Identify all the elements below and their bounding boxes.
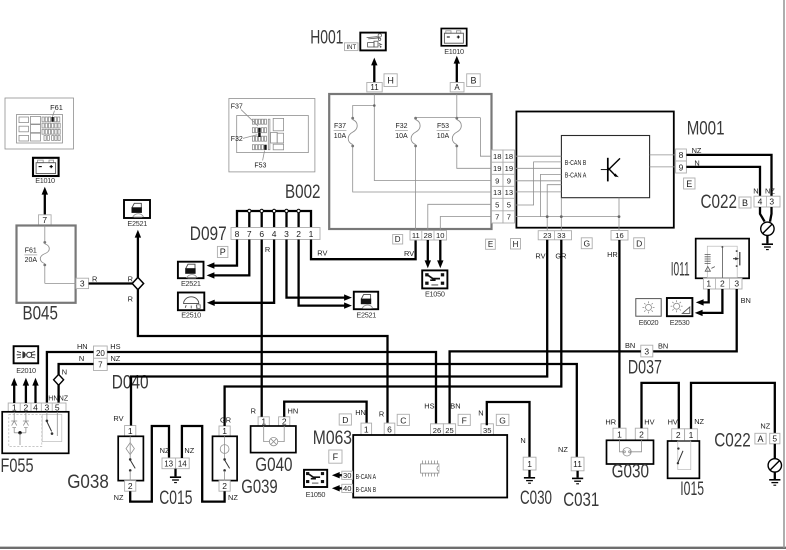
svg-text:2: 2 bbox=[222, 481, 227, 491]
svg-text:1: 1 bbox=[527, 459, 532, 469]
body computer M001 bbox=[515, 112, 676, 231]
svg-text:35: 35 bbox=[483, 426, 491, 435]
svg-text:B-CAN B: B-CAN B bbox=[356, 487, 377, 494]
CAN icon E1050 bbox=[304, 470, 327, 499]
svg-text:HS: HS bbox=[424, 402, 434, 411]
wire arrow M063.30 to E1050 bbox=[332, 472, 342, 478]
F055 pin strip pins 1 2 4 3 5 bbox=[8, 403, 66, 413]
svg-text:NZ: NZ bbox=[558, 445, 568, 454]
svg-text:20: 20 bbox=[96, 349, 105, 358]
svg-text:I015: I015 bbox=[680, 479, 704, 500]
letter box G bbox=[581, 238, 592, 249]
C031 pin 11 bbox=[571, 457, 584, 471]
pump G038 bbox=[118, 436, 143, 480]
svg-text:2: 2 bbox=[720, 279, 725, 289]
svg-text:4: 4 bbox=[272, 229, 277, 239]
svg-text:E: E bbox=[686, 179, 692, 189]
svg-text:HN: HN bbox=[288, 406, 299, 415]
wire arrow D097.8 to E2521 bbox=[207, 240, 237, 269]
svg-text:F53: F53 bbox=[254, 163, 266, 170]
letter box H bbox=[511, 239, 521, 250]
svg-text:4: 4 bbox=[758, 197, 763, 207]
svg-text:10A: 10A bbox=[395, 133, 408, 140]
wire GR M001.33 to G039.1 bbox=[225, 240, 562, 426]
pump motor G030 bbox=[607, 440, 654, 464]
svg-text:P: P bbox=[220, 247, 226, 257]
G040 pin 1 bbox=[258, 416, 269, 426]
letter box A bbox=[755, 433, 766, 444]
svg-text:1: 1 bbox=[222, 426, 227, 436]
svg-text:F61: F61 bbox=[50, 103, 63, 112]
letter box D bbox=[393, 235, 403, 245]
svg-text:16: 16 bbox=[615, 231, 623, 240]
connector C015 pins 13 14 bbox=[162, 458, 189, 469]
svg-text:R: R bbox=[379, 409, 384, 418]
I015 pin 1 bbox=[685, 429, 698, 441]
wire arrow B002.A to E1010 bbox=[454, 56, 460, 83]
svg-text:2: 2 bbox=[676, 430, 681, 440]
svg-text:I011: I011 bbox=[671, 259, 690, 280]
svg-text:NZ: NZ bbox=[114, 493, 124, 502]
wire HS bus D040.20 to M063.26 bbox=[107, 352, 436, 425]
ground C031 bbox=[572, 471, 583, 484]
svg-text:G038: G038 bbox=[67, 472, 109, 493]
wire HR M001.16 to G030.1 bbox=[618, 240, 620, 428]
fusebox inset F37 F32 F53 bbox=[229, 99, 315, 172]
svg-text:5: 5 bbox=[507, 200, 511, 209]
svg-text:E2521: E2521 bbox=[181, 279, 201, 288]
B045 pin 3 bbox=[76, 278, 89, 288]
lamp icon E2510 bbox=[178, 293, 204, 320]
svg-text:E1050: E1050 bbox=[425, 290, 445, 299]
svg-text:C031: C031 bbox=[563, 490, 599, 511]
wire arrow B002.11 to H001 bbox=[371, 58, 377, 83]
svg-text:1: 1 bbox=[128, 426, 133, 436]
svg-text:E2521: E2521 bbox=[127, 219, 147, 228]
letter box C bbox=[397, 414, 409, 425]
svg-text:HN: HN bbox=[355, 408, 366, 417]
wire NZ I015.1 to C022A.5 bbox=[691, 383, 775, 433]
svg-text:1: 1 bbox=[689, 430, 694, 440]
I011 pins 1 2 3 bbox=[703, 278, 742, 289]
svg-text:C022: C022 bbox=[714, 431, 751, 452]
svg-text:E2510: E2510 bbox=[181, 310, 201, 319]
svg-text:RV: RV bbox=[113, 414, 123, 423]
svg-text:NZ: NZ bbox=[110, 354, 120, 363]
door unit I011 bbox=[696, 239, 749, 279]
svg-text:F: F bbox=[333, 452, 339, 462]
wire RV M001.23 to G038.1 bbox=[131, 240, 547, 426]
G038 pin 1 bbox=[125, 426, 136, 437]
ground C022B bbox=[762, 236, 773, 250]
wire BN I011.3 to D037.3 bbox=[653, 289, 737, 351]
svg-text:3: 3 bbox=[80, 278, 85, 288]
svg-text:INT: INT bbox=[346, 45, 356, 51]
svg-text:25: 25 bbox=[445, 426, 453, 435]
svg-text:HS: HS bbox=[110, 342, 120, 351]
svg-text:G040: G040 bbox=[255, 455, 292, 476]
C022A pin 5 bbox=[770, 433, 780, 444]
wire N D040.7 to node bbox=[59, 364, 94, 375]
M063 pin 35 bbox=[481, 424, 493, 435]
node diamond R bbox=[132, 277, 143, 289]
svg-text:2: 2 bbox=[296, 229, 301, 239]
svg-text:1: 1 bbox=[706, 279, 711, 289]
svg-text:G: G bbox=[499, 415, 506, 425]
svg-text:E1050: E1050 bbox=[306, 490, 326, 499]
svg-text:R: R bbox=[265, 245, 270, 254]
svg-text:1: 1 bbox=[617, 429, 622, 439]
svg-text:9: 9 bbox=[507, 176, 511, 185]
svg-text:H: H bbox=[387, 76, 394, 86]
svg-text:BN: BN bbox=[658, 342, 668, 351]
fusebox location inset F61 bbox=[5, 98, 74, 149]
ground C030 bbox=[524, 470, 535, 483]
svg-text:BN: BN bbox=[625, 341, 635, 350]
svg-text:NZ: NZ bbox=[765, 187, 775, 196]
B045 pin 7 bbox=[39, 215, 52, 225]
svg-text:E1010: E1010 bbox=[444, 47, 464, 56]
svg-text:D: D bbox=[342, 415, 348, 425]
battery E1010 bbox=[441, 29, 466, 56]
switch unit F055 bbox=[2, 412, 69, 454]
wire arrow I011.2 to E2530 bbox=[695, 289, 723, 316]
M001 bottom pins 23 33 bbox=[538, 231, 571, 241]
svg-text:F37: F37 bbox=[334, 123, 346, 130]
svg-text:7: 7 bbox=[507, 213, 511, 222]
connector D040 bbox=[94, 346, 108, 371]
svg-text:6: 6 bbox=[259, 229, 264, 239]
svg-text:7: 7 bbox=[98, 361, 103, 370]
svg-text:A: A bbox=[454, 83, 460, 92]
switch I015 bbox=[668, 441, 700, 478]
wire arrows F055 pins up bbox=[11, 378, 39, 403]
lamp icon E2521 bbox=[124, 200, 150, 228]
svg-text:D: D bbox=[636, 238, 642, 248]
svg-text:E2530: E2530 bbox=[670, 318, 690, 327]
B002 pin 11 top bbox=[367, 83, 382, 93]
wire arrow D097.2 to E2521 bbox=[299, 240, 352, 309]
wire R D097.6 to G040.1 bbox=[261, 240, 263, 417]
svg-text:G030: G030 bbox=[612, 462, 649, 483]
svg-text:26: 26 bbox=[433, 426, 441, 435]
ground C022A bbox=[769, 472, 780, 485]
battery E1010 bbox=[33, 158, 59, 185]
svg-text:14: 14 bbox=[178, 459, 187, 468]
svg-text:30: 30 bbox=[343, 471, 351, 480]
screw ground joint bbox=[761, 222, 774, 235]
wire arrow D097.7 to E2521 bbox=[207, 240, 250, 279]
svg-text:6: 6 bbox=[387, 424, 392, 434]
svg-text:19: 19 bbox=[505, 164, 513, 173]
svg-text:8: 8 bbox=[235, 229, 240, 239]
lamp icon E2521 bbox=[178, 262, 204, 289]
M063 pin 25 bbox=[443, 424, 455, 435]
svg-text:7: 7 bbox=[42, 215, 47, 225]
CAN icon E1050 bbox=[422, 270, 447, 298]
svg-text:13: 13 bbox=[164, 459, 173, 468]
svg-text:NZ: NZ bbox=[694, 417, 704, 426]
svg-text:HV: HV bbox=[668, 418, 678, 427]
wire HV G030.2 to I015.2 bbox=[642, 383, 679, 429]
wire NZ bus D040.7 to C031 bbox=[107, 364, 577, 457]
svg-text:3: 3 bbox=[284, 229, 289, 239]
svg-text:B-CAN A: B-CAN A bbox=[356, 474, 377, 481]
M001 pin 9 bbox=[676, 161, 687, 173]
svg-text:M063: M063 bbox=[313, 428, 352, 449]
wire arrow B045 pin7 to E1010 bbox=[42, 187, 48, 215]
G030 pin 1 bbox=[613, 428, 626, 440]
svg-text:F53: F53 bbox=[437, 123, 449, 130]
connector C022 pins 4 3 bbox=[754, 196, 780, 207]
svg-text:A: A bbox=[757, 434, 763, 444]
wire N M001.9 to C022.4 bbox=[686, 167, 760, 196]
svg-text:BN: BN bbox=[741, 296, 751, 305]
svg-text:NZ: NZ bbox=[59, 396, 69, 403]
pump G039 bbox=[213, 436, 238, 480]
svg-text:B: B bbox=[470, 76, 476, 86]
svg-text:C022: C022 bbox=[701, 192, 738, 213]
svg-text:2: 2 bbox=[282, 416, 287, 426]
ground C015 bbox=[170, 469, 181, 483]
svg-text:N: N bbox=[62, 368, 67, 377]
G030 pin 2 bbox=[635, 428, 648, 440]
lamp icon E2530 bbox=[667, 298, 693, 327]
svg-text:11: 11 bbox=[412, 231, 420, 240]
svg-text:1: 1 bbox=[364, 424, 369, 434]
svg-text:10A: 10A bbox=[334, 133, 347, 140]
wire HN D040.20 to F055.3 bbox=[47, 352, 94, 403]
wire NZ M001.8 to C022.3 bbox=[686, 155, 771, 196]
svg-text:N: N bbox=[478, 409, 483, 418]
svg-text:13: 13 bbox=[505, 188, 513, 197]
fuse unit B002 bbox=[329, 94, 491, 231]
svg-text:G: G bbox=[583, 238, 590, 248]
svg-text:BN: BN bbox=[450, 402, 460, 411]
G039 pin 2 bbox=[219, 481, 230, 492]
svg-text:N: N bbox=[753, 187, 758, 196]
wire NZ G039.2 to C015.14 bbox=[182, 426, 225, 502]
svg-text:3: 3 bbox=[769, 197, 774, 207]
svg-text:1: 1 bbox=[261, 416, 266, 426]
svg-text:D: D bbox=[395, 235, 401, 244]
svg-text:23: 23 bbox=[543, 231, 551, 240]
wire arrow B002.10 to E1050 bbox=[437, 240, 443, 268]
svg-text:3: 3 bbox=[734, 279, 739, 289]
body computer node M063 bbox=[353, 435, 507, 498]
D037 pin 3 bbox=[641, 345, 653, 357]
B002 right pin rows 18 19 9 13 5 7 bbox=[492, 150, 515, 223]
svg-text:E1010: E1010 bbox=[35, 176, 55, 185]
svg-text:19: 19 bbox=[493, 164, 501, 173]
svg-text:1: 1 bbox=[309, 229, 314, 239]
svg-text:10A: 10A bbox=[437, 133, 450, 140]
wire N node to F055.5 bbox=[57, 385, 59, 403]
svg-text:7: 7 bbox=[247, 229, 252, 239]
letter box INT bbox=[345, 43, 359, 51]
svg-text:B045: B045 bbox=[23, 303, 58, 324]
G038 pin 2 bbox=[125, 481, 136, 492]
svg-text:40: 40 bbox=[343, 484, 351, 493]
svg-text:8: 8 bbox=[679, 150, 684, 160]
wires C022B to screw joint bbox=[760, 207, 772, 222]
svg-text:E2010: E2010 bbox=[16, 366, 36, 375]
svg-text:B-CAN A: B-CAN A bbox=[565, 173, 587, 180]
svg-text:M001: M001 bbox=[687, 119, 725, 140]
letter box E bbox=[684, 178, 695, 189]
svg-text:20A: 20A bbox=[25, 257, 38, 264]
svg-text:2: 2 bbox=[128, 481, 133, 491]
G039 pin 1 bbox=[219, 426, 230, 436]
svg-text:2: 2 bbox=[639, 429, 644, 439]
svg-text:D097: D097 bbox=[190, 224, 227, 245]
motor G040 bbox=[251, 426, 296, 453]
letter box P bbox=[217, 246, 228, 257]
wire HN G040.2 to M063.1 bbox=[284, 402, 366, 424]
M063 pin 6 bbox=[384, 423, 395, 435]
wire C022A.5 to screw bbox=[774, 444, 776, 459]
svg-text:N: N bbox=[520, 436, 525, 445]
letter box E bbox=[486, 239, 496, 249]
svg-text:B: B bbox=[742, 198, 748, 208]
letter box H bbox=[384, 74, 397, 87]
wire arrow M063.40 to E1050 bbox=[332, 485, 342, 491]
svg-text:5: 5 bbox=[495, 200, 499, 209]
M063 pin 1 bbox=[361, 423, 372, 435]
svg-text:NZ: NZ bbox=[160, 446, 170, 455]
lamp icon E6020 bbox=[636, 299, 661, 327]
connector B045 bbox=[17, 226, 77, 303]
svg-text:F32: F32 bbox=[395, 123, 407, 130]
node diamond N bbox=[54, 374, 64, 385]
svg-text:N: N bbox=[79, 354, 84, 363]
I015 pin 2 bbox=[672, 429, 685, 441]
svg-text:HR: HR bbox=[607, 250, 618, 259]
svg-text:11: 11 bbox=[370, 83, 379, 92]
svg-text:18: 18 bbox=[493, 152, 501, 161]
wire BN D037.3 to M063.25 bbox=[450, 351, 641, 425]
letter box F bbox=[329, 450, 342, 463]
svg-text:R: R bbox=[128, 274, 133, 283]
wire arrow D097.3 to E2521 bbox=[287, 240, 352, 301]
letter box D bbox=[634, 238, 645, 249]
page bottom border bbox=[0, 547, 786, 549]
svg-text:11: 11 bbox=[573, 459, 582, 469]
lamp icon E2010 bbox=[14, 346, 39, 375]
key icon H001 bbox=[360, 33, 386, 51]
screw ground joint bbox=[768, 459, 781, 472]
svg-text:10: 10 bbox=[436, 231, 444, 240]
wire arrow I011.1 to E2530 bbox=[696, 289, 709, 306]
wire arrow B002.28 to E1050 bbox=[425, 240, 431, 268]
B002 pin A top bbox=[450, 83, 464, 93]
svg-text:E2521: E2521 bbox=[356, 311, 376, 320]
svg-text:18: 18 bbox=[505, 152, 513, 161]
M063 pin 30 bbox=[342, 471, 353, 480]
svg-text:R: R bbox=[251, 406, 256, 415]
letter box D bbox=[339, 414, 351, 425]
svg-text:7: 7 bbox=[495, 213, 499, 222]
svg-text:R: R bbox=[92, 274, 97, 283]
svg-text:9: 9 bbox=[495, 176, 499, 185]
svg-text:RV: RV bbox=[317, 248, 327, 257]
svg-text:9: 9 bbox=[679, 162, 684, 172]
letter box F bbox=[458, 414, 470, 425]
svg-text:5: 5 bbox=[772, 434, 777, 444]
svg-text:13: 13 bbox=[493, 188, 501, 197]
svg-text:HR: HR bbox=[605, 418, 616, 427]
svg-text:F055: F055 bbox=[1, 456, 34, 477]
B002 bottom pins 11 28 10 bbox=[410, 231, 447, 241]
svg-text:H: H bbox=[513, 240, 519, 249]
svg-text:HV: HV bbox=[644, 418, 654, 427]
svg-text:33: 33 bbox=[557, 231, 565, 240]
D097 harness bus bbox=[237, 209, 311, 227]
M001 pin 16 bbox=[611, 231, 628, 241]
wire arrow node to E2521 bbox=[135, 230, 141, 278]
svg-text:B-CAN B: B-CAN B bbox=[565, 160, 587, 167]
wire RV D097.1 to B002.11 bbox=[311, 240, 416, 260]
svg-text:RV: RV bbox=[535, 252, 545, 261]
G040 pin 2 bbox=[279, 416, 290, 426]
svg-text:E6020: E6020 bbox=[639, 318, 659, 327]
svg-text:28: 28 bbox=[424, 231, 432, 240]
svg-text:B002: B002 bbox=[285, 182, 321, 203]
svg-text:NZ: NZ bbox=[228, 493, 238, 502]
svg-text:R: R bbox=[128, 295, 133, 304]
svg-text:F61: F61 bbox=[25, 248, 37, 255]
wire arrow D097.4 to E2510 bbox=[207, 240, 274, 307]
svg-text:D037: D037 bbox=[628, 358, 662, 379]
lamp icon E2521 bbox=[354, 292, 378, 320]
svg-text:C015: C015 bbox=[159, 488, 192, 509]
svg-text:C030: C030 bbox=[520, 488, 552, 509]
svg-text:H001: H001 bbox=[310, 27, 343, 48]
letter box B bbox=[739, 197, 751, 208]
svg-text:F: F bbox=[462, 415, 467, 425]
wire NZ G038.2 to C015.13 bbox=[130, 426, 169, 502]
wire R B045 to node bbox=[89, 282, 133, 284]
letter box G bbox=[496, 414, 509, 425]
svg-text:C: C bbox=[400, 415, 406, 425]
svg-text:RV: RV bbox=[404, 249, 414, 258]
svg-text:3: 3 bbox=[644, 346, 649, 356]
M063 pin 40 bbox=[342, 484, 353, 493]
M001 pin 8 bbox=[676, 149, 687, 161]
wire N M063.35 to C030.1 bbox=[487, 402, 530, 457]
svg-text:NZ: NZ bbox=[760, 422, 770, 431]
svg-text:G039: G039 bbox=[241, 477, 277, 498]
wire R node down to bus bbox=[138, 289, 388, 423]
svg-text:F32: F32 bbox=[231, 136, 243, 143]
connector D097 pins 8 7 6 4 3 2 1 bbox=[231, 228, 320, 240]
svg-text:HN: HN bbox=[77, 342, 88, 351]
svg-text:E: E bbox=[488, 240, 493, 249]
letter box B bbox=[467, 74, 481, 87]
svg-text:NZ: NZ bbox=[184, 446, 194, 455]
page right border bbox=[783, 0, 785, 548]
C030 pin 1 bbox=[523, 457, 536, 470]
M063 pin 26 bbox=[431, 424, 444, 435]
